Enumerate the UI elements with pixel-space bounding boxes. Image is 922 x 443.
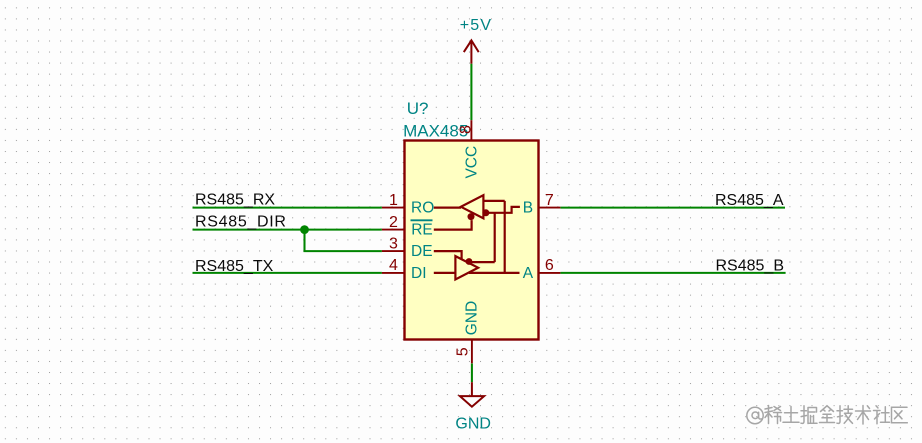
wire RS485_B bbox=[560, 272, 785, 274]
op-amp U1 MAX485 body bbox=[405, 141, 539, 340]
char tu bbox=[783, 407, 799, 423]
svg-text:DE: DE bbox=[411, 243, 433, 260]
svg-text:3: 3 bbox=[389, 236, 398, 253]
svg-text:5: 5 bbox=[455, 347, 472, 356]
pin 2 RE bbox=[382, 229, 405, 231]
pin 8 VCC bbox=[470, 120, 472, 140]
char jue bbox=[801, 406, 807, 424]
svg-text:DI: DI bbox=[411, 265, 427, 282]
junction on RS485_DIR bbox=[300, 225, 309, 234]
wire RS485_DIR bbox=[193, 229, 382, 231]
wire RO to receiver apex bbox=[434, 207, 461, 209]
wire RS485_A bbox=[560, 207, 785, 209]
svg-text:1: 1 bbox=[389, 192, 398, 209]
svg-text:2: 2 bbox=[389, 214, 398, 231]
svg-text:GND: GND bbox=[464, 301, 481, 335]
wire DI to driver bbox=[434, 272, 456, 274]
pin 3 DE bbox=[382, 250, 405, 252]
svg-text:RE: RE bbox=[411, 221, 433, 238]
pin 4 DI bbox=[382, 272, 405, 274]
char she bbox=[874, 406, 881, 424]
pin 7 B bbox=[539, 207, 561, 209]
line receiver input A top bbox=[483, 200, 504, 202]
line B vertical to driver bbox=[494, 213, 496, 262]
svg-text:A: A bbox=[523, 265, 534, 282]
inverting bubble RE bbox=[468, 213, 475, 220]
pin 6 A bbox=[539, 272, 561, 274]
char shu bbox=[856, 406, 871, 425]
line A horizontal to pin bbox=[469, 272, 520, 274]
svg-text:GND: GND bbox=[455, 416, 491, 433]
svg-text:+5V: +5V bbox=[460, 17, 493, 34]
svg-text:RS485_A: RS485_A bbox=[715, 192, 784, 209]
svg-text:RS485_TX: RS485_TX bbox=[195, 258, 274, 275]
line driver bubble to B vertical bbox=[472, 261, 495, 263]
pin 1 RO bbox=[382, 207, 405, 209]
line B jog to pin bbox=[486, 207, 520, 213]
char @ bbox=[747, 407, 763, 423]
line A vertical bbox=[504, 201, 506, 273]
svg-text:RO: RO bbox=[411, 200, 434, 217]
svg-text:6: 6 bbox=[545, 257, 554, 274]
wire RS485_TX bbox=[193, 272, 382, 274]
wire RE to receiver enable bbox=[434, 220, 472, 230]
svg-text:B: B bbox=[523, 199, 533, 216]
ground symbol bbox=[460, 382, 484, 407]
char jin bbox=[820, 406, 835, 423]
svg-text:7: 7 bbox=[545, 192, 554, 209]
char qu bbox=[892, 407, 908, 422]
watermark @稀土掘金技术社区 drawn as strokes bbox=[747, 406, 908, 425]
pin 5 GND bbox=[471, 340, 473, 363]
wire GND bbox=[471, 364, 473, 383]
char xi bbox=[765, 406, 773, 424]
wire RS485_DIR branch to DE bbox=[305, 230, 382, 252]
svg-text:RS485_B: RS485_B bbox=[716, 257, 785, 274]
driver triangle bbox=[455, 256, 478, 279]
char ji bbox=[837, 406, 843, 424]
power symbol +5V bbox=[464, 40, 479, 63]
receiver triangle inside U1 bbox=[434, 195, 520, 279]
wire VCC bbox=[470, 64, 472, 120]
junction B at receiver input bbox=[482, 209, 489, 216]
svg-text:U?: U? bbox=[407, 99, 429, 118]
svg-text:VCC: VCC bbox=[464, 146, 481, 179]
wire DE to driver enable bbox=[434, 251, 462, 260]
svg-text:4: 4 bbox=[389, 257, 398, 274]
inverting bubble driver output B bbox=[466, 258, 473, 265]
wire RS485_RX bbox=[193, 207, 382, 209]
svg-text:8: 8 bbox=[457, 125, 474, 134]
svg-text:RS485_DIR: RS485_DIR bbox=[195, 213, 287, 230]
svg-text:RS485_RX: RS485_RX bbox=[195, 191, 275, 208]
